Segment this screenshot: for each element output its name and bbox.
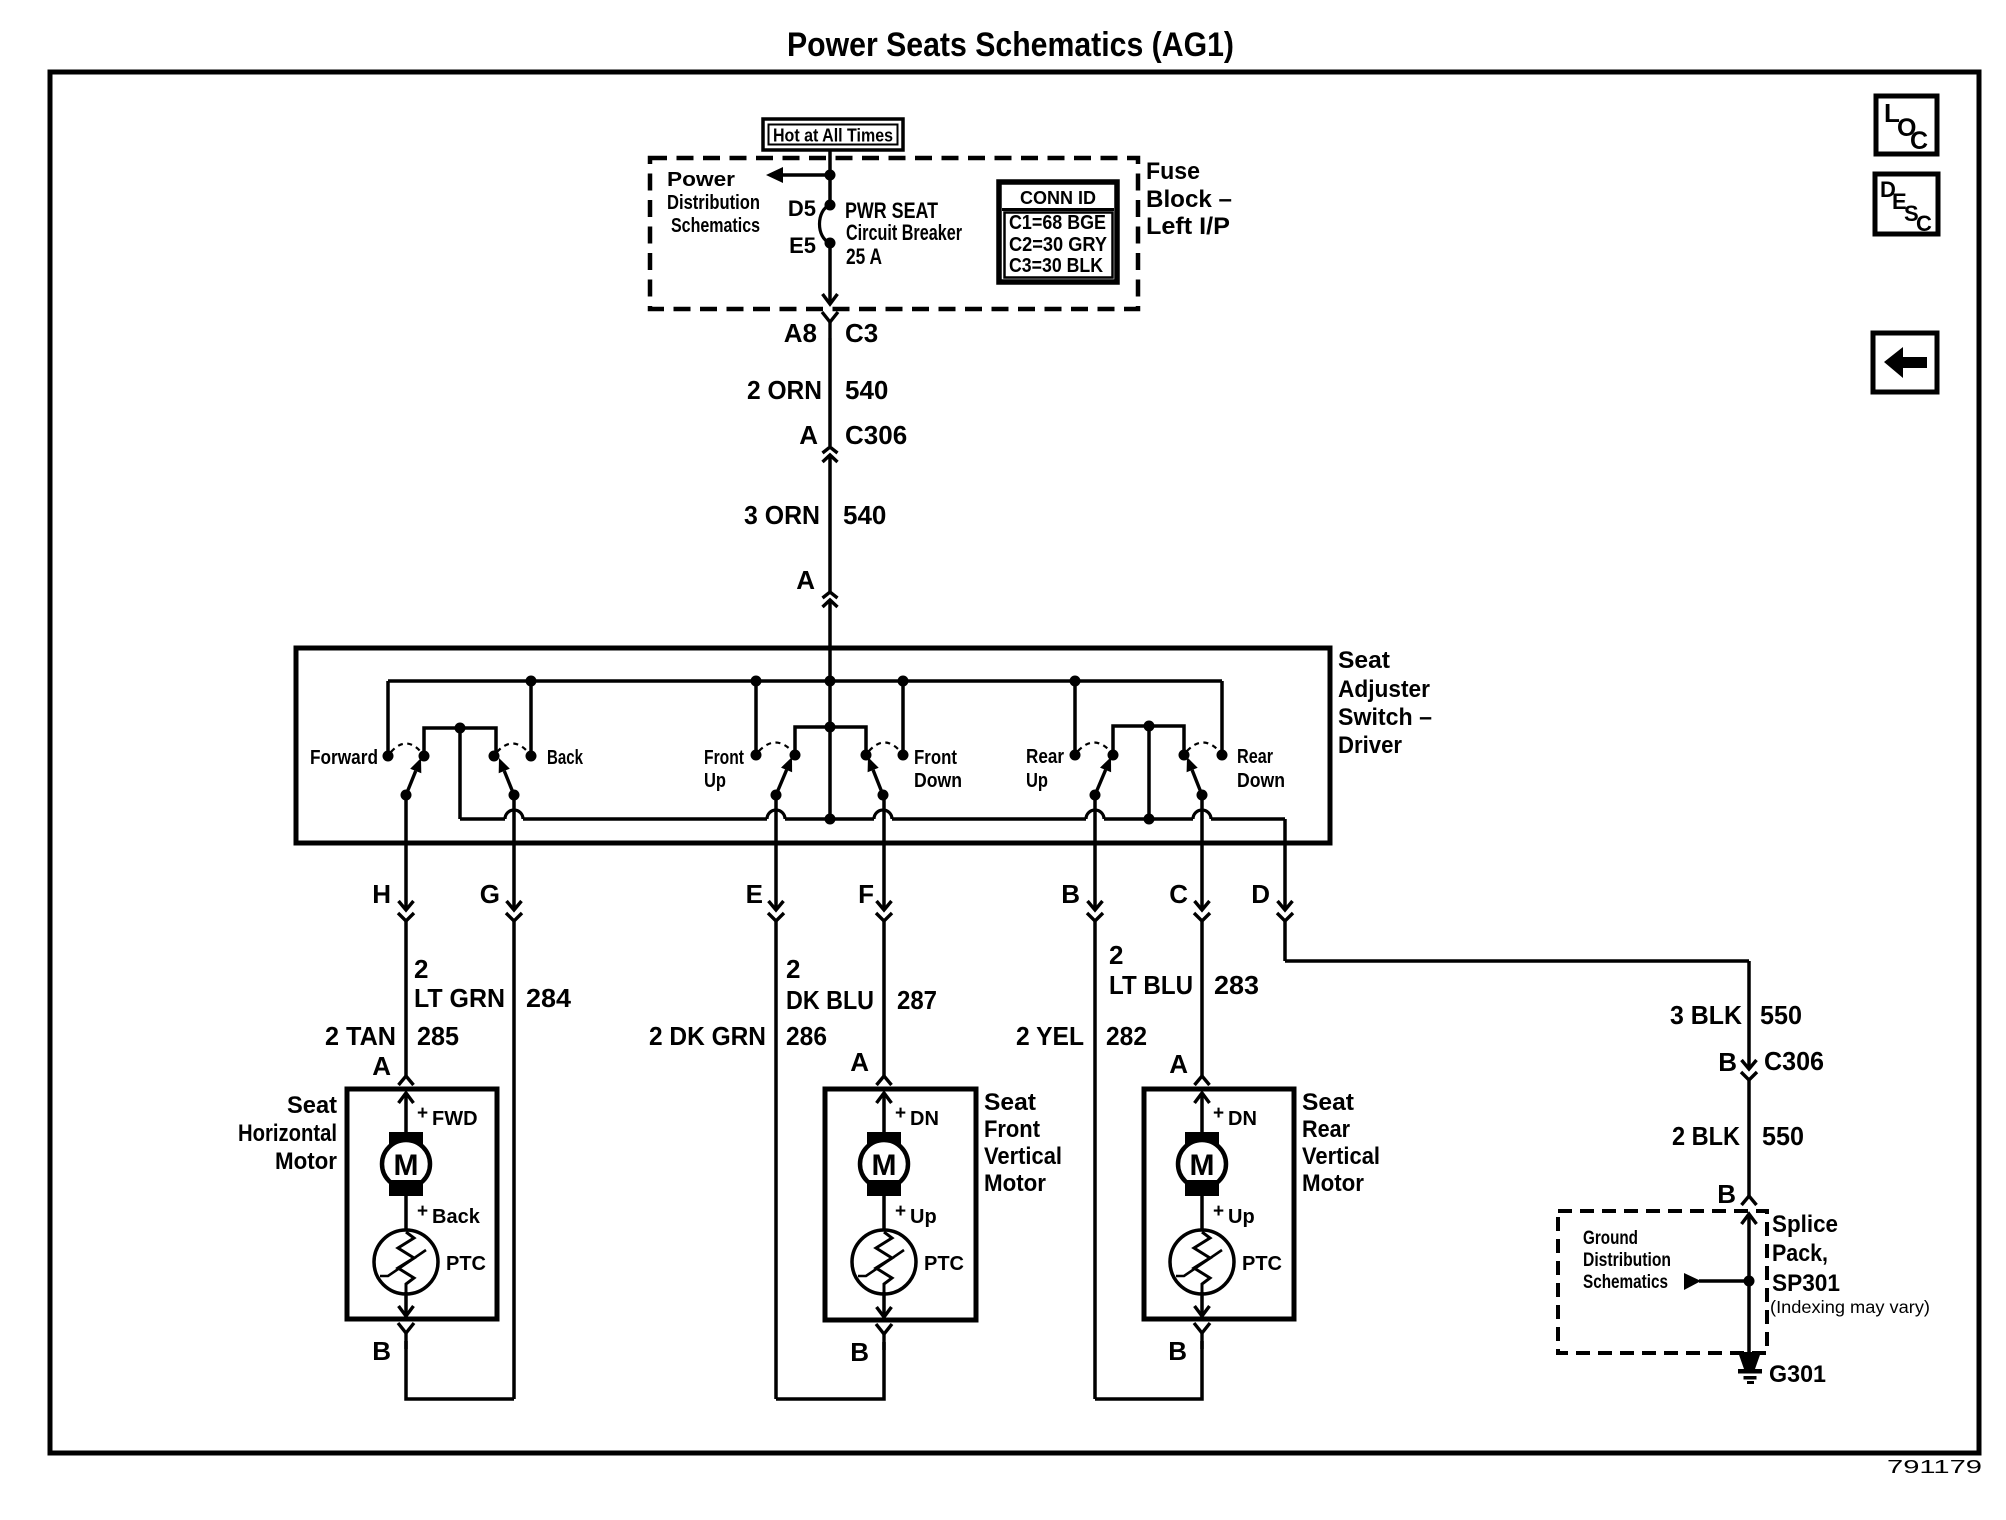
svg-text:LT GRN: LT GRN — [414, 983, 505, 1013]
node: bridge 2 centre on rail — [825, 814, 836, 825]
svg-text:Horizontal: Horizontal — [238, 1120, 337, 1147]
svg-text:C306: C306 — [1764, 1046, 1824, 1076]
label: pin E — [746, 879, 763, 909]
svg-text:550: 550 — [1760, 1000, 1802, 1030]
svg-text:+: + — [895, 1201, 906, 1222]
wire: switch pin G — [512, 795, 516, 910]
connector pin H of switch — [398, 901, 414, 921]
connector pin D of switch — [1277, 901, 1293, 921]
arrow to Ground Distribution Schematics — [1684, 1273, 1749, 1290]
svg-text:Rear: Rear — [1302, 1116, 1350, 1143]
label: Forward — [310, 747, 378, 769]
svg-text:285: 285 — [417, 1021, 459, 1051]
svg-text:Power Seats Schematics (AG1): Power Seats Schematics (AG1) — [787, 26, 1234, 64]
label: PWR SEAT Circuit Breaker 25 A — [845, 198, 962, 269]
svg-text:B: B — [372, 1336, 391, 1366]
wire: bus to Front Up contact — [751, 676, 762, 753]
contact: Forward inner — [419, 751, 430, 762]
svg-text:Vertical: Vertical — [1302, 1143, 1380, 1170]
label: + Up — [895, 1201, 937, 1228]
wire: motor 2 to PTC — [882, 1196, 886, 1230]
svg-text:Front: Front — [914, 747, 957, 769]
label: 2 YEL 282 — [1016, 1021, 1147, 1051]
svg-text:DK BLU: DK BLU — [786, 985, 874, 1015]
label: pin H — [372, 879, 391, 909]
motor M3 symbol — [1178, 1132, 1226, 1196]
label: + FWD — [417, 1103, 478, 1130]
svg-text:M: M — [1190, 1149, 1215, 1182]
contact: Rear Up inner — [1108, 750, 1119, 761]
label: pin A motor 3 — [1169, 1049, 1188, 1079]
svg-text:Up: Up — [1026, 770, 1048, 792]
contact: Rear Down — [1217, 750, 1228, 761]
svg-text:A: A — [372, 1051, 391, 1081]
svg-text:2 ORN: 2 ORN — [747, 375, 822, 405]
label: Seat Horizontal Motor — [238, 1092, 337, 1175]
svg-text:540: 540 — [845, 375, 888, 405]
svg-text:B: B — [1717, 1179, 1736, 1209]
wire: bus to Back contact — [526, 676, 537, 754]
wire: H to Seat Horizontal Motor pin A (2 TAN 285) — [404, 919, 408, 1076]
switch blade E (Front Up) — [771, 757, 793, 801]
svg-text:Back: Back — [432, 1206, 481, 1228]
connector pin B of motor 1 — [398, 1323, 414, 1349]
svg-text:C: C — [1169, 879, 1188, 909]
node: feed joins bus — [825, 676, 836, 687]
svg-text:2 BLK: 2 BLK — [1672, 1121, 1740, 1151]
svg-text:Up: Up — [910, 1206, 937, 1228]
arrow to Power Distribution Schematics — [766, 167, 830, 183]
PTC thermistor of motor 2 — [852, 1230, 964, 1294]
svg-text:M: M — [394, 1149, 419, 1182]
svg-text:D: D — [1251, 879, 1270, 909]
label: 3 ORN 540 — [744, 500, 886, 530]
label: pin A motor 1 — [372, 1051, 391, 1081]
back arrow box — [1873, 333, 1937, 392]
svg-text:2: 2 — [1109, 940, 1123, 970]
svg-text:Block –: Block – — [1146, 186, 1232, 213]
CONN ID table — [999, 182, 1117, 282]
wire: PTC to pin B of motor 2 — [877, 1292, 892, 1317]
svg-text:Down: Down — [1237, 770, 1285, 792]
svg-text:282: 282 — [1106, 1021, 1147, 1051]
svg-text:PTC: PTC — [446, 1253, 486, 1275]
label: 2 LT BLU 283 — [1109, 940, 1259, 1000]
label: Seat Rear Vertical Motor — [1302, 1089, 1380, 1197]
label: 2 TAN 285 — [325, 1021, 459, 1051]
svg-text:Rear: Rear — [1237, 746, 1273, 768]
wire: motor 3 internal top — [1200, 1093, 1204, 1133]
motor M1 symbol — [382, 1132, 430, 1196]
svg-text:Down: Down — [914, 770, 962, 792]
svg-text:+: + — [895, 1103, 906, 1124]
svg-text:Distribution: Distribution — [667, 192, 760, 214]
label: drawing number 791179 — [1887, 1457, 1982, 1477]
motor 2 housing — [825, 1089, 976, 1320]
wire: bus to Rear Up contact — [1070, 676, 1081, 753]
svg-text:Splice: Splice — [1772, 1211, 1838, 1238]
label: pin A motor 2 — [850, 1047, 869, 1077]
svg-text:Vertical: Vertical — [984, 1143, 1062, 1170]
svg-text:Motor: Motor — [984, 1170, 1046, 1197]
svg-text:Switch –: Switch – — [1338, 704, 1432, 731]
label: A pin — [799, 420, 818, 450]
switch blade F (Front Down) — [868, 757, 889, 801]
wire: feed into switch — [828, 600, 832, 681]
motor 3 housing — [1144, 1089, 1294, 1319]
svg-text:Hot at All Times: Hot at All Times — [773, 126, 893, 146]
svg-text:E: E — [746, 879, 763, 909]
node: bridge 2 centre — [825, 722, 836, 733]
svg-text:Left I/P: Left I/P — [1146, 213, 1230, 240]
label: pin B motor 2 — [850, 1337, 869, 1367]
svg-text:Schematics: Schematics — [1583, 1272, 1668, 1293]
title: Power Seats Schematics (AG1) — [787, 26, 1234, 64]
svg-text:Front: Front — [984, 1116, 1040, 1143]
svg-text:Seat: Seat — [984, 1089, 1036, 1116]
label: Power Distribution Schematics — [667, 169, 760, 237]
connector pin A into motor 1 — [399, 1076, 414, 1103]
svg-text:B: B — [1168, 1336, 1187, 1366]
wire: E down left side (2 DK GRN 286) — [774, 919, 778, 1399]
wire: motor 3 pin B loop to B — [1095, 1341, 1202, 1399]
connector pin A into motor 2 — [877, 1076, 892, 1103]
wire: switch pin H — [404, 795, 408, 910]
label: Front Up — [704, 747, 744, 792]
dashed travel arc Forward — [391, 744, 421, 753]
label: 2 DK BLU 287 — [786, 954, 937, 1015]
label: pin B motor 1 — [372, 1336, 391, 1366]
svg-text:A: A — [796, 565, 815, 595]
svg-text:Distribution: Distribution — [1583, 1250, 1671, 1271]
label: Rear Up — [1026, 746, 1064, 792]
svg-text:SP301: SP301 — [1772, 1270, 1840, 1297]
wire: switch pin E — [774, 795, 778, 910]
svg-text:C3: C3 — [845, 318, 878, 348]
wire: 2 ORN 540 — [828, 338, 832, 446]
svg-text:+: + — [1213, 1201, 1224, 1222]
Hot at All Times label box — [763, 119, 903, 150]
switch blade H (Forward) — [401, 758, 422, 801]
wire: bus to Rear Down contact — [1220, 681, 1224, 752]
wire: 3 ORN 540 — [828, 455, 832, 592]
bridge bar group 1 — [424, 728, 496, 756]
connector pin B of motor 3 — [1194, 1323, 1210, 1349]
wire: C to Seat Rear Vertical Motor pin A (2 LT BLU 283) — [1200, 919, 1204, 1076]
svg-text:F: F — [858, 879, 874, 909]
svg-text:Up: Up — [1228, 1206, 1255, 1228]
connector pin A at seat adjuster switch — [823, 592, 838, 607]
wire: motor 3 to PTC — [1200, 1196, 1204, 1230]
svg-text:E5: E5 — [789, 233, 816, 258]
svg-text:LT BLU: LT BLU — [1109, 970, 1193, 1000]
label: 2 BLK 550 — [1672, 1121, 1804, 1151]
node: bridge 3 centre on rail — [1144, 814, 1155, 825]
motor 1 housing — [347, 1089, 497, 1319]
svg-text:Adjuster: Adjuster — [1338, 676, 1430, 703]
svg-text:Rear: Rear — [1026, 746, 1064, 768]
label: pin B at C306 — [1718, 1047, 1737, 1077]
svg-text:+: + — [1213, 1103, 1224, 1124]
label: (Indexing may vary) — [1770, 1297, 1930, 1317]
svg-text:Up: Up — [704, 770, 726, 792]
svg-text:Motor: Motor — [275, 1148, 337, 1175]
wire: breaker to fuse block exit — [823, 243, 838, 304]
junction node on feed wire — [825, 170, 836, 181]
motor M2 symbol — [860, 1132, 908, 1196]
connector C306 pin A — [823, 447, 838, 462]
svg-text:286: 286 — [786, 1021, 827, 1051]
label: 2 ORN 540 — [747, 375, 888, 405]
svg-text:Motor: Motor — [1302, 1170, 1364, 1197]
connector C306 pin B — [1741, 1060, 1757, 1080]
circuit breaker PWR SEAT 25A (D5-E5) — [820, 200, 836, 249]
svg-text:CONN ID: CONN ID — [1020, 188, 1096, 208]
bridge bar group 2 — [795, 727, 866, 755]
svg-text:C306: C306 — [845, 420, 907, 450]
label: + DN — [895, 1103, 939, 1130]
node: bridge 1 centre — [455, 723, 466, 734]
contact: Front Down inner — [861, 750, 872, 761]
label: + DN — [1213, 1103, 1257, 1130]
label: pin F — [858, 879, 874, 909]
LOC reference box — [1876, 96, 1937, 155]
svg-text:Forward: Forward — [310, 747, 378, 769]
connector pin B of motor 2 — [876, 1324, 892, 1350]
contact: Front Down — [898, 750, 909, 761]
dashed travel arc Front Down — [869, 743, 900, 752]
svg-text:PTC: PTC — [1242, 1253, 1282, 1275]
PTC thermistor of motor 3 — [1170, 1230, 1282, 1294]
switch blade B (Rear Up) — [1090, 757, 1112, 801]
switch blade C (Rear Down) — [1187, 757, 1208, 801]
switch supply bus — [388, 679, 1222, 682]
wire: switch pin B — [1093, 795, 1097, 910]
label: G301 — [1769, 1361, 1826, 1388]
label: pin C — [1169, 879, 1188, 909]
svg-text:DN: DN — [910, 1108, 939, 1130]
contact: Back — [526, 751, 537, 762]
dashed travel arc Front Up — [759, 743, 792, 752]
wire: bridge 3 centre to common rail — [1147, 726, 1151, 819]
wire: bridge 1 centre to common rail — [458, 728, 462, 819]
ground symbol G301 — [1738, 1352, 1762, 1384]
wire: 2 BLK 550 to splice — [1747, 1078, 1751, 1196]
svg-text:Fuse: Fuse — [1146, 158, 1200, 185]
svg-text:25 A: 25 A — [846, 244, 882, 269]
label: A8 pin — [784, 318, 817, 348]
wire: bus to Forward contact — [386, 681, 390, 753]
svg-text:A: A — [1169, 1049, 1188, 1079]
label: Seat Front Vertical Motor — [984, 1089, 1062, 1197]
svg-text:C3=30 BLK: C3=30 BLK — [1009, 255, 1103, 277]
label: Seat Adjuster Switch - Driver — [1338, 647, 1432, 759]
label: E5 pin — [789, 233, 816, 258]
wire: motor 1 internal top — [404, 1093, 408, 1133]
connector pin B of switch — [1087, 901, 1103, 921]
svg-text:Seat: Seat — [1338, 647, 1390, 674]
dashed travel arc Rear Up — [1078, 743, 1110, 752]
svg-text:Pack,: Pack, — [1772, 1240, 1828, 1267]
connector A8/C3 at fuse block — [822, 312, 838, 338]
wire: battery feed from Hot at All Times to breaker — [828, 150, 832, 205]
svg-text:791179: 791179 — [1887, 1457, 1982, 1477]
contact: Rear Down inner — [1179, 750, 1190, 761]
svg-text:B: B — [850, 1337, 869, 1367]
wire: bridge 2 centre to common rail — [828, 681, 832, 819]
wire: motor 1 to PTC — [404, 1196, 408, 1230]
label: 2 DK GRN 286 — [649, 1021, 827, 1051]
wire: B down left side (2 YEL 282) — [1093, 919, 1097, 1399]
wire: bus to Front Down contact — [898, 676, 909, 753]
wire: D to ground splice (3 BLK 550) — [1285, 919, 1749, 1069]
common rail of switch to pin D — [460, 810, 1285, 910]
PTC thermistor of motor 1 — [374, 1230, 486, 1294]
switch blade G (Back) — [499, 758, 520, 801]
svg-text:Circuit Breaker: Circuit Breaker — [846, 220, 962, 245]
svg-text:PTC: PTC — [924, 1253, 964, 1275]
svg-text:2: 2 — [786, 954, 800, 984]
svg-text:H: H — [372, 879, 391, 909]
svg-text:B: B — [1718, 1047, 1737, 1077]
svg-text:283: 283 — [1214, 970, 1259, 1000]
svg-text:DN: DN — [1228, 1108, 1257, 1130]
label: Back — [547, 747, 584, 769]
svg-text:C: C — [1910, 127, 1928, 155]
wire: motor 2 pin B loop to E — [776, 1342, 884, 1399]
connector pin G of switch — [506, 901, 522, 921]
svg-text:M: M — [872, 1149, 897, 1182]
wire: switch pin C — [1200, 795, 1204, 910]
svg-text:2 YEL: 2 YEL — [1016, 1021, 1084, 1051]
contact: Front Up inner — [790, 750, 801, 761]
svg-text:540: 540 — [843, 500, 886, 530]
svg-text:G: G — [480, 879, 500, 909]
svg-text:C1=68 BGE: C1=68 BGE — [1009, 212, 1106, 234]
svg-text:2 DK GRN: 2 DK GRN — [649, 1021, 766, 1051]
svg-text:2 TAN: 2 TAN — [325, 1021, 396, 1051]
svg-text:B: B — [1061, 879, 1080, 909]
wire: switch pin F — [882, 795, 886, 910]
svg-text:C: C — [1916, 211, 1932, 236]
svg-text:Seat: Seat — [1302, 1089, 1354, 1116]
svg-text:3 BLK: 3 BLK — [1670, 1000, 1742, 1030]
svg-text:(Indexing may vary): (Indexing may vary) — [1770, 1297, 1930, 1317]
connector pin A into motor 3 — [1195, 1076, 1210, 1103]
connector pin E of switch — [768, 901, 784, 921]
dashed travel arc Rear Down — [1187, 743, 1219, 752]
label: pin B motor 3 — [1168, 1336, 1187, 1366]
ground distribution dashed box — [1558, 1211, 1767, 1353]
svg-text:284: 284 — [526, 983, 572, 1013]
label: Front Down — [914, 747, 962, 792]
label: + Up — [1213, 1201, 1255, 1228]
svg-text:Driver: Driver — [1338, 732, 1402, 759]
svg-text:Front: Front — [704, 747, 744, 769]
connector pin F of switch — [876, 901, 892, 921]
label: Ground Distribution Schematics — [1583, 1228, 1671, 1293]
label: D5 pin — [788, 196, 816, 221]
svg-text:3 ORN: 3 ORN — [744, 500, 820, 530]
svg-text:550: 550 — [1762, 1121, 1804, 1151]
label: A pin — [796, 565, 815, 595]
svg-text:D5: D5 — [788, 196, 816, 221]
svg-text:+: + — [417, 1201, 428, 1222]
svg-text:A: A — [799, 420, 818, 450]
svg-text:Schematics: Schematics — [671, 215, 760, 237]
wire: F to Seat Front Vertical Motor pin A (2 DK BLU 287) — [882, 919, 886, 1076]
label: pin B — [1061, 879, 1080, 909]
svg-text:G301: G301 — [1769, 1361, 1826, 1388]
label: pin B at splice — [1717, 1179, 1736, 1209]
label: pin G — [480, 879, 500, 909]
svg-text:2: 2 — [414, 954, 428, 984]
label: 3 BLK 550 — [1670, 1000, 1802, 1030]
svg-text:C2=30 GRY: C2=30 GRY — [1009, 234, 1108, 256]
bridge bar group 3 — [1113, 726, 1184, 755]
label: C3 connector — [845, 318, 878, 348]
wire: motor 2 internal top — [882, 1093, 886, 1133]
node: SP301 splice — [1744, 1276, 1755, 1287]
svg-text:FWD: FWD — [432, 1108, 478, 1130]
label: pin D — [1251, 879, 1270, 909]
svg-text:Power: Power — [667, 169, 735, 191]
contact: Front Up — [751, 750, 762, 761]
contact: Forward — [383, 751, 394, 762]
label: Fuse Block - Left I/P — [1146, 158, 1232, 240]
wire: G down right side (2 LT GRN 284) — [512, 919, 516, 1399]
node: bridge 3 centre — [1144, 721, 1155, 732]
svg-text:Back: Back — [547, 747, 584, 769]
svg-text:Ground: Ground — [1583, 1228, 1638, 1249]
dashed travel arc Back — [497, 744, 528, 753]
svg-text:287: 287 — [897, 985, 937, 1015]
svg-text:Seat: Seat — [287, 1092, 337, 1119]
contact: Back inner — [489, 751, 500, 762]
svg-text:A8: A8 — [784, 318, 817, 348]
svg-text:+: + — [417, 1103, 428, 1124]
DESC reference box — [1875, 174, 1938, 236]
label: Splice Pack SP301 — [1772, 1211, 1840, 1297]
label: 2 LT GRN 284 — [414, 954, 572, 1013]
seat adjuster switch housing — [296, 648, 1330, 843]
wire: splice pack vertical — [1742, 1214, 1757, 1352]
wire: PTC to pin B of motor 3 — [1195, 1292, 1210, 1316]
label: C306 connector — [845, 420, 907, 450]
contact: Rear Up — [1070, 750, 1081, 761]
connector pin B into splice pack — [1742, 1196, 1757, 1205]
label: Rear Down — [1237, 746, 1285, 792]
fuse block dashed box — [650, 158, 1138, 309]
label: + Back — [417, 1201, 481, 1228]
connector pin C of switch — [1194, 901, 1210, 921]
wire: motor 1 pin B loop to G — [406, 1341, 514, 1399]
label: C306 — [1764, 1046, 1824, 1076]
svg-text:A: A — [850, 1047, 869, 1077]
wire: PTC to pin B of motor 1 — [399, 1292, 414, 1316]
